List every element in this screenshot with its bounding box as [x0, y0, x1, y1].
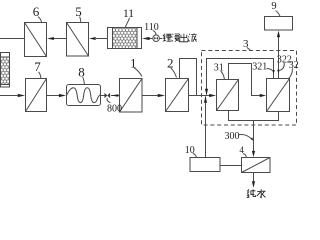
svg-text:8: 8 — [78, 64, 85, 79]
wire bottoms to connector — [229, 111, 279, 121]
wire box2 to box31 — [189, 95, 210, 97]
leader 800 — [107, 98, 110, 103]
electrodialysis box 32 — [267, 79, 290, 112]
wire into box7 — [0, 95, 18, 97]
wire box4 outlet — [253, 173, 255, 182]
svg-text:9: 9 — [271, 1, 276, 12]
pump 110 symbol — [153, 35, 160, 42]
svg-text:31: 31 — [214, 62, 224, 73]
svg-text:32: 32 — [289, 60, 299, 71]
svg-text:1: 1 — [130, 55, 137, 70]
text li-jin-chu-ye (lithium leach solution) drawn strokes — [163, 33, 197, 41]
svg-text:10: 10 — [185, 145, 195, 156]
svg-text:3: 3 — [243, 38, 249, 50]
arrowhead into box8 — [59, 94, 66, 97]
filter box 4 — [242, 158, 271, 173]
char ye (liquid) — [188, 33, 196, 41]
leader 321 — [267, 68, 273, 70]
svg-text:7: 7 — [34, 59, 41, 74]
char chu (out) — [180, 34, 188, 42]
arrowhead into valve — [111, 94, 118, 97]
char chun (pure) — [247, 189, 256, 197]
arrowhead up from box10 riser — [204, 96, 207, 102]
arrowhead 300 leader — [251, 137, 254, 141]
leader 6 — [38, 17, 42, 23]
svg-text:5: 5 — [75, 4, 82, 19]
arrowhead down on 321 drop — [272, 70, 275, 74]
char li (metal+li) — [163, 34, 172, 42]
arrowhead into box2 — [158, 94, 165, 97]
arrowhead up into box9 — [277, 31, 280, 37]
adsorption column 11 — [108, 28, 142, 49]
char jin (soak) — [172, 34, 180, 42]
leader 5 — [80, 17, 81, 23]
wire box11 to box5 — [96, 38, 108, 40]
leader 4 — [243, 154, 246, 158]
filter box 5 — [67, 23, 89, 57]
wire box10 riser — [205, 96, 207, 157]
svg-text:2: 2 — [167, 55, 174, 70]
wire 300 drop — [253, 121, 255, 152]
svg-text:800: 800 — [107, 104, 122, 115]
leader 7 — [39, 72, 41, 79]
wire box7 to box8 — [47, 95, 60, 97]
leader 10 — [193, 153, 197, 157]
arrowhead down on 322 line — [277, 70, 280, 74]
svg-text:11: 11 — [123, 8, 134, 20]
arrowhead into box7 — [18, 94, 25, 97]
arrowhead down into box4 — [252, 151, 255, 157]
svg-text:6: 6 — [33, 4, 40, 19]
svg-text:300: 300 — [225, 131, 240, 142]
wire box5 to box6 — [54, 38, 67, 40]
wire pump to box11 — [149, 38, 153, 40]
wire box1 to valve — [111, 95, 120, 97]
filter box 1 — [120, 79, 143, 113]
wire 321 route — [229, 64, 260, 96]
filter box 6 — [25, 23, 47, 57]
svg-text:4: 4 — [239, 145, 244, 155]
wire return line top — [207, 59, 274, 95]
leader 1 — [134, 68, 142, 77]
wire box32 to box9 — [278, 37, 280, 79]
leader 3 — [247, 47, 251, 50]
leader 31 — [221, 71, 225, 79]
arrowhead into box6 — [47, 37, 54, 40]
filter box 7 — [26, 79, 47, 112]
text pure water — [247, 189, 266, 197]
adsorption column left edge — [1, 53, 10, 88]
product box 9 — [265, 17, 293, 31]
arrowhead into box11 — [142, 37, 150, 40]
filter box 2 — [166, 79, 189, 112]
wire box2 top over-route — [180, 59, 197, 96]
wire box8 to valve — [101, 95, 105, 97]
wire box10 to box4 — [220, 165, 242, 167]
svg-text:321: 321 — [252, 61, 267, 72]
wire box6 to left edge — [0, 38, 25, 40]
arrowhead into box5 — [89, 37, 96, 40]
arrowhead down into junction — [205, 89, 208, 95]
leader 300 — [238, 134, 252, 139]
wire pump inlet — [159, 38, 162, 40]
svg-text:110: 110 — [144, 22, 159, 33]
leader 8 — [83, 77, 85, 84]
char shui (water) — [257, 189, 265, 197]
leader 32 — [289, 68, 293, 78]
leader 110 — [153, 30, 156, 34]
leader 2 — [171, 68, 177, 78]
leader 11 — [125, 18, 129, 28]
arrowhead into box31 — [209, 94, 216, 97]
valve 800 — [105, 93, 111, 98]
arrowhead down pure water outlet — [252, 181, 255, 188]
dashed box 3 — [202, 51, 297, 126]
electrodialysis box 31 — [217, 80, 239, 111]
leader 9 — [276, 11, 280, 17]
leader 322 — [280, 63, 284, 70]
heater box 8 — [67, 85, 101, 106]
arrowhead into box32 — [260, 94, 266, 97]
wire box1 to box2 — [142, 95, 158, 97]
tank box 10 — [190, 158, 220, 172]
